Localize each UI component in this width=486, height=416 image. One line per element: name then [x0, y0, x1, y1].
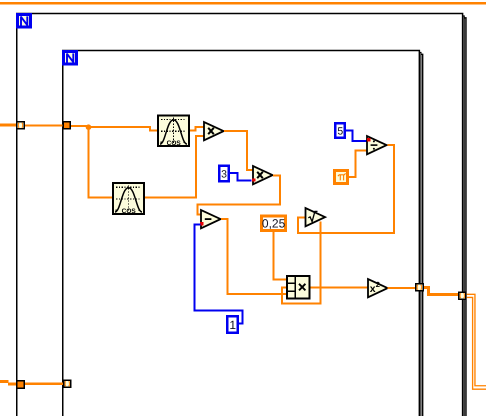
subtract node U3	[201, 210, 221, 228]
numeric constant 5	[335, 123, 344, 137]
wire sqrt output to compound input2	[282, 222, 321, 304]
wire array input bottom (outside outer loop)	[0, 382, 17, 384]
svg-text:2: 2	[376, 280, 380, 289]
multiply node U1	[204, 122, 224, 140]
svg-text:0,25: 0,25	[262, 216, 286, 230]
wire 2D array output line A	[467, 294, 486, 385]
svg-text:3: 3	[221, 169, 227, 181]
junction node dot	[86, 124, 92, 130]
loop count terminal N inner	[64, 52, 77, 65]
tunnel auto-indexing outer-right	[459, 292, 466, 299]
tunnel auto-indexing outer-left top	[17, 122, 25, 129]
cos function icon 1	[158, 115, 189, 147]
numeric constant 1	[227, 316, 237, 332]
coercion dot multiply2	[252, 178, 256, 181]
svg-text:5: 5	[337, 126, 343, 138]
wire constant1 to subtract bottom input	[194, 224, 242, 323]
wire divide output to sqrt input	[298, 145, 394, 233]
wire between loops top	[25, 124, 63, 126]
wire subtract output to compound input3	[221, 219, 287, 294]
wire cos1 to multiply1 top input	[190, 127, 204, 130]
wire pi to divide bottom input	[349, 151, 367, 178]
wire compound output to square input	[311, 287, 368, 289]
cos function icon 2	[113, 183, 144, 215]
square x^2 node U7	[368, 279, 388, 297]
wire constant 0,25 to compound input1	[273, 232, 286, 280]
wire constant3 to multiply2 bottom input	[230, 173, 252, 181]
wire constant5 to divide top input	[346, 130, 367, 141]
loop count terminal N outer	[18, 15, 31, 28]
tunnel auto-indexing inner-left bottom	[64, 380, 71, 387]
wire array input top (outside outer loop)	[0, 124, 16, 127]
wire top horizontal rail	[0, 2, 486, 5]
wire tunnel to junction	[71, 125, 87, 127]
square root node U5	[306, 208, 326, 226]
compound arithmetic multiply node U6	[287, 276, 309, 298]
wire 1D array between loops right	[424, 287, 458, 294]
wire between loops bottom	[25, 382, 63, 385]
coercion dot divide	[367, 138, 371, 142]
svg-text:COS: COS	[122, 208, 137, 215]
wire junction down to cos2	[89, 130, 113, 198]
wire multiply1 to multiply2 top input	[224, 131, 252, 170]
svg-text:COS: COS	[167, 140, 182, 147]
coercion dot subtract	[200, 222, 204, 225]
tunnel solid outer-left bottom	[17, 381, 25, 389]
numeric constant 0,25	[262, 216, 286, 231]
wire square output to inner-right tunnel	[388, 287, 416, 289]
tunnel auto-indexing inner-right	[416, 284, 424, 291]
wire junction to cos1	[90, 127, 158, 131]
tunnel solid inner-left top	[63, 122, 70, 129]
wire cos2 to multiply1 bottom input	[145, 136, 204, 198]
divide node U4	[367, 136, 387, 154]
pi constant	[335, 171, 348, 184]
multiply node U2	[253, 166, 273, 184]
wire 2D array output line B	[467, 297, 486, 389]
numeric constant 3	[219, 166, 228, 181]
wire multiply2 back to subtract top input	[197, 175, 280, 214]
for-loop inner border	[63, 50, 423, 416]
svg-text:1: 1	[229, 318, 236, 332]
